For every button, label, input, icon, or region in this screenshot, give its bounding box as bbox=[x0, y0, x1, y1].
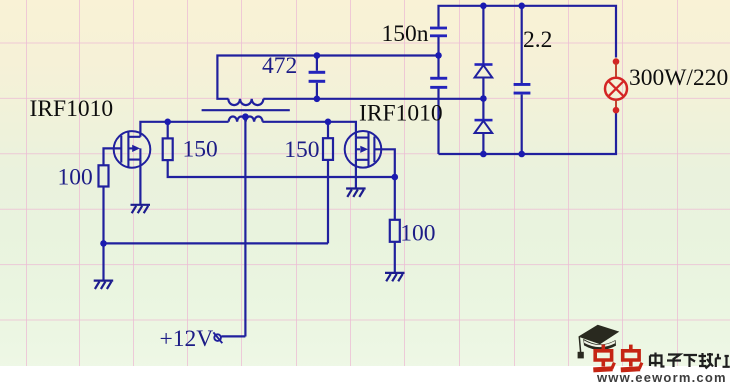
logo graduation cap bbox=[578, 325, 620, 359]
logo 虫虫 red characters bbox=[593, 345, 642, 370]
MOSFET Q1 arrow bbox=[132, 145, 140, 152]
diode D2 cathode bar bbox=[475, 119, 493, 122]
junction diodes midpoint bbox=[480, 95, 487, 102]
wire 438 vertical low to bottom bus bbox=[437, 89, 439, 154]
wire primary left bbox=[140, 122, 228, 137]
wire left gate lead bbox=[104, 148, 122, 165]
resistor R-left-150 stub top bbox=[167, 122, 169, 139]
ground G1 under Q1 source bbox=[131, 205, 151, 213]
wire right FET source down bbox=[355, 160, 357, 189]
wire left FET source down bbox=[139, 160, 141, 205]
MOSFET Q2 IRF1010 right bbox=[345, 131, 382, 168]
resistor R-left-150 body bbox=[163, 138, 173, 160]
svg-text:150n: 150n bbox=[382, 21, 429, 47]
ground G4 under R-right-100 bbox=[385, 273, 405, 281]
capacitor C-2.2 plates bbox=[514, 83, 531, 86]
MOSFET Q2 arrow bbox=[360, 146, 368, 153]
svg-text:+12V: +12V bbox=[160, 326, 214, 352]
wire to ground G2 bbox=[102, 243, 104, 280]
wire diode chain between bbox=[482, 78, 484, 120]
diode D2 triangle bbox=[475, 121, 493, 133]
wire gnd-net y243 bbox=[103, 242, 328, 244]
capacitor C-472 plates bbox=[309, 71, 326, 74]
svg-text:2.2: 2.2 bbox=[523, 27, 552, 53]
wire 438 vertical mid bbox=[437, 37, 439, 77]
svg-text:IRF1010: IRF1010 bbox=[359, 101, 443, 127]
resistor R-right-100 body bbox=[390, 220, 400, 242]
resistor R-left-100 body bbox=[99, 165, 109, 186]
wire right gate lead bbox=[374, 149, 394, 177]
resistor R-right-100 stub top bbox=[394, 177, 396, 220]
svg-text:150: 150 bbox=[183, 137, 218, 163]
wire diode chain lower bbox=[482, 133, 484, 154]
wire bottom bus bbox=[439, 113, 617, 154]
ground G3 under Q2 source bbox=[346, 189, 366, 197]
junction gnd-net left bbox=[100, 240, 107, 247]
svg-text:100: 100 bbox=[58, 165, 93, 191]
junction primary left / drain bbox=[164, 119, 171, 126]
svg-text:472: 472 bbox=[262, 53, 297, 79]
wire cross-couple y177 bbox=[168, 160, 395, 177]
wire primary right bbox=[262, 122, 356, 138]
resistor R-right-150 body bbox=[323, 138, 333, 160]
lamp LP1 300W/220 bbox=[605, 58, 627, 113]
diode D1 cathode bar bbox=[475, 63, 493, 66]
wire 472 loop top bbox=[217, 56, 438, 99]
transformer T1 secondary winding arcs bbox=[228, 99, 263, 105]
resistor R-right-150 stub top bbox=[327, 122, 329, 138]
junction primary right / drain bbox=[325, 119, 332, 126]
junction bottom bus / 2.2 bbox=[518, 151, 525, 158]
junction top bus / D1 bbox=[480, 3, 487, 10]
logo text 电子下载站 bbox=[650, 353, 730, 369]
wire diode chain upper bbox=[482, 6, 484, 64]
wire +12V lead bbox=[222, 335, 246, 337]
node +12V port symbol bbox=[213, 332, 222, 343]
wire top bus bbox=[439, 6, 617, 58]
svg-text:IRF1010: IRF1010 bbox=[30, 96, 114, 122]
svg-text:100: 100 bbox=[400, 221, 435, 247]
diode D1 triangle bbox=[475, 65, 493, 77]
wire 2.2 cap vertical lower bbox=[521, 95, 523, 154]
wire center tap bbox=[244, 117, 246, 337]
svg-text:300W/220: 300W/220 bbox=[629, 65, 728, 91]
MOSFET Q1 IRF1010 left bbox=[114, 131, 151, 168]
junction bottom bus / diodes bbox=[480, 151, 487, 158]
junction 472 cap top bbox=[314, 52, 321, 59]
wire 472 cap stubs bbox=[316, 56, 318, 99]
transformer T1 primary winding arcs bbox=[229, 117, 263, 122]
svg-text:150: 150 bbox=[284, 137, 319, 163]
wire secondary to diode node bbox=[263, 98, 483, 100]
junction right gate node bbox=[392, 174, 399, 181]
wire right100 to ground G4 bbox=[394, 242, 396, 273]
svg-text:www.eeworm.com: www.eeworm.com bbox=[596, 370, 727, 384]
logo tassel bbox=[579, 337, 580, 352]
junction top bus / 2.2 cap bbox=[518, 3, 525, 10]
wire left100 bottom bbox=[102, 187, 104, 244]
junction 472 cap bottom bbox=[314, 96, 321, 103]
junction 472 top / cap chain bbox=[435, 52, 442, 59]
capacitor C-150n plates bbox=[430, 27, 447, 30]
ground G2 bottom left bbox=[94, 281, 114, 289]
capacitor C2 plates bbox=[430, 77, 447, 80]
transformer T1 core bbox=[202, 109, 290, 111]
transformer T1 center tap dot bbox=[242, 113, 249, 120]
wire right150 bottom to gnd-net bbox=[327, 160, 329, 244]
wire 2.2 cap vertical bbox=[521, 6, 523, 83]
